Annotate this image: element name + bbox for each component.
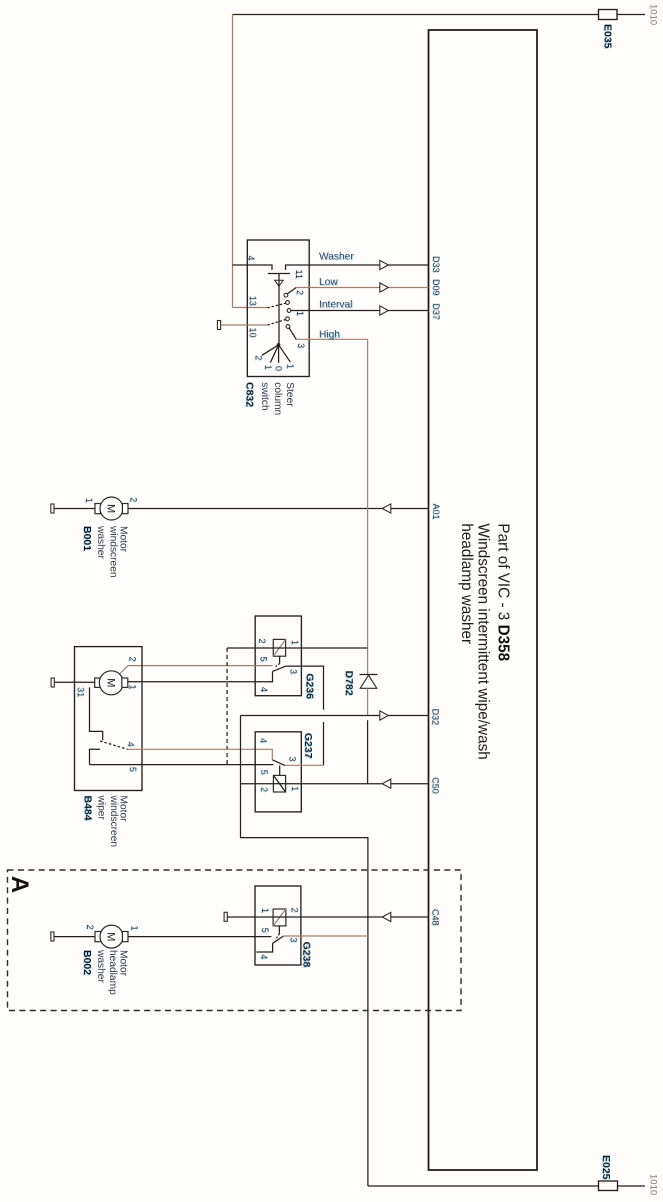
terminator B001 pin 1 xyxy=(51,504,54,513)
label Motor headlamp washer B002 xyxy=(81,949,129,995)
svg-text:B002: B002 xyxy=(81,950,93,975)
wire to pin 13 (brown) xyxy=(233,307,268,309)
position label 1b xyxy=(285,364,295,369)
svg-text:3: 3 xyxy=(288,669,298,674)
svg-text:5: 5 xyxy=(260,928,270,933)
wire G237 pin 3 (brown) xyxy=(286,764,324,766)
pin 1 G238 xyxy=(260,908,270,913)
wire B484 pin 5 to G237 contact 5 xyxy=(90,764,274,766)
wire G236 coil feed left xyxy=(227,647,273,649)
svg-text:4: 4 xyxy=(259,687,269,692)
svg-text:4: 4 xyxy=(258,738,268,743)
svg-text:2: 2 xyxy=(295,290,305,295)
svg-text:2: 2 xyxy=(257,639,267,644)
net label 1010 top xyxy=(647,4,658,25)
svg-text:C48: C48 xyxy=(430,909,440,926)
contact 3 circle xyxy=(286,325,290,329)
wire contact 1 to Interval output xyxy=(291,310,429,312)
pin 1 B002 xyxy=(130,926,140,931)
svg-text:M: M xyxy=(105,932,117,941)
label G237 xyxy=(302,733,314,759)
wire G238 coil pin 2 to C48 xyxy=(286,916,429,918)
wire E035 to edge xyxy=(617,14,645,16)
label Steer column switch xyxy=(259,382,295,415)
svg-text:A: A xyxy=(6,876,33,893)
svg-text:2: 2 xyxy=(85,925,95,930)
steering column switch C832 box xyxy=(247,240,309,377)
relay G238 box xyxy=(255,886,301,965)
wire stub C50 net vertical xyxy=(367,720,369,784)
washer bridge contact bar xyxy=(268,273,290,275)
position label 2 xyxy=(254,355,264,360)
svg-text:Steer: Steer xyxy=(284,382,295,407)
wire B484 pin 4 to G237 (brown) xyxy=(128,749,273,759)
svg-text:D09: D09 xyxy=(431,279,441,296)
wire terminator to motor B001 xyxy=(54,508,95,510)
wire terminator to B484 xyxy=(54,681,94,683)
contact 2 circle xyxy=(284,293,288,297)
pin 1 B484 xyxy=(128,685,138,690)
pin 2 G237 xyxy=(259,787,269,792)
wire diode to D32 net (brown) xyxy=(367,688,369,715)
wire B484 park switch common xyxy=(90,687,103,740)
wire G238 pin 3 to ground path (brown) xyxy=(284,935,368,937)
label D09 xyxy=(431,279,441,296)
motor B484 box xyxy=(75,647,143,791)
svg-text:2: 2 xyxy=(254,355,264,360)
motor B002 xyxy=(95,925,128,948)
svg-text:4: 4 xyxy=(246,256,256,261)
svg-text:1: 1 xyxy=(128,685,138,690)
label Motor windscreen washer B001 xyxy=(81,525,129,578)
wire D32 net to ground path xyxy=(241,716,368,1187)
pin 3 xyxy=(296,343,306,348)
label C50 xyxy=(430,777,440,794)
svg-text:13: 13 xyxy=(248,296,258,306)
park switch contact stub xyxy=(90,749,101,764)
pin 4 G237 xyxy=(258,738,268,743)
svg-text:1: 1 xyxy=(263,365,273,370)
wire terminator to motor B002 xyxy=(54,936,95,938)
pin 13 xyxy=(248,296,258,306)
pin 31 B484 xyxy=(76,687,86,697)
wire ground bottom (net 1010) xyxy=(368,1185,599,1187)
svg-text:M: M xyxy=(104,678,116,687)
svg-text:D33: D33 xyxy=(431,256,441,273)
pin 1 G237 xyxy=(290,786,300,791)
pin 5 G236 xyxy=(259,657,269,662)
control unit D358 box xyxy=(429,30,538,1170)
svg-text:31: 31 xyxy=(76,687,86,697)
arrow A01 xyxy=(382,504,391,513)
wire B001 to A01 xyxy=(128,508,429,510)
wire High net vertical (brown) xyxy=(367,339,369,674)
pin 4 G238 xyxy=(259,954,269,959)
arrow D32 xyxy=(380,711,389,720)
contact 13 circle xyxy=(286,301,290,305)
pin 4 xyxy=(246,256,256,261)
arrow C48 xyxy=(382,912,391,921)
svg-text:11: 11 xyxy=(294,270,304,279)
label A01 xyxy=(431,504,441,520)
label A xyxy=(6,876,33,893)
label Windscreen intermittent wipe/wash xyxy=(475,523,492,759)
svg-text:C832: C832 xyxy=(243,382,255,407)
svg-text:switch: switch xyxy=(259,382,270,410)
svg-text:1010: 1010 xyxy=(647,4,658,25)
wire G237 coil pin 1 to C50 xyxy=(286,783,429,785)
svg-text:windscreen: windscreen xyxy=(107,525,118,578)
relay G237 coil xyxy=(273,775,285,792)
svg-text:4: 4 xyxy=(126,742,136,747)
svg-text:2: 2 xyxy=(128,657,138,662)
contact 10 circle xyxy=(286,317,290,321)
svg-text:2: 2 xyxy=(129,497,139,502)
pin 1 B001 xyxy=(84,498,94,503)
svg-text:5: 5 xyxy=(259,770,269,775)
svg-text:windscreen: windscreen xyxy=(108,795,119,848)
svg-text:2: 2 xyxy=(259,787,269,792)
rotary position fan xyxy=(262,343,291,363)
arrow D37 xyxy=(380,306,389,315)
arrow D09 xyxy=(380,283,389,292)
svg-text:Interval: Interval xyxy=(319,300,352,311)
svg-text:C50: C50 xyxy=(430,777,440,794)
svg-text:Part of VIC - 3 D358: Part of VIC - 3 D358 xyxy=(495,523,512,661)
svg-text:Motor: Motor xyxy=(118,950,129,977)
svg-text:D37: D37 xyxy=(431,303,441,320)
pin 5 G237 xyxy=(259,770,269,775)
label E035 xyxy=(602,24,614,49)
relay G236 coil xyxy=(273,639,285,656)
svg-text:1: 1 xyxy=(260,908,270,913)
pin 1 xyxy=(295,311,305,316)
motor B484 xyxy=(95,671,128,695)
svg-text:G237: G237 xyxy=(302,733,314,759)
washer contact right stub to pin 11 xyxy=(286,265,429,270)
pin 3 G238 xyxy=(289,937,299,942)
label E025 xyxy=(600,1155,612,1180)
svg-text:B484: B484 xyxy=(82,796,94,821)
svg-text:3: 3 xyxy=(289,937,299,942)
wire B002 to G238 contact 5 xyxy=(128,936,271,938)
svg-text:A01: A01 xyxy=(431,504,441,520)
label Part of VIC - 3 D358 xyxy=(495,523,512,661)
terminator pin 10 xyxy=(217,321,220,330)
connector E025 xyxy=(599,1181,618,1191)
label D782 xyxy=(343,671,355,696)
relay G238 armature xyxy=(273,926,284,943)
wire D32 net horizontal xyxy=(241,715,429,717)
wire vertical feed to switch (brown) xyxy=(232,15,234,308)
wire ground feed top (net 1010) xyxy=(233,14,599,16)
wire terminator to G238 coil xyxy=(227,916,273,918)
svg-text:E035: E035 xyxy=(602,24,614,49)
svg-text:E025: E025 xyxy=(600,1155,612,1180)
terminator G238 coil feed xyxy=(224,912,227,921)
label G238 xyxy=(300,942,312,968)
svg-text:5: 5 xyxy=(259,657,269,662)
pin 5 B484 xyxy=(128,767,138,772)
park switch arm B484 xyxy=(100,741,128,749)
label Low xyxy=(319,277,338,288)
label D32 xyxy=(430,709,440,726)
pin 2 xyxy=(295,290,305,295)
switch wiper stem xyxy=(278,274,280,345)
svg-text:Washer: Washer xyxy=(319,252,354,263)
pin 2 B001 xyxy=(129,497,139,502)
moving contact from pin 10 xyxy=(268,320,286,326)
relay G236 box xyxy=(255,616,301,696)
wire G236 pin 4 to B484 pin 1 xyxy=(128,671,273,681)
svg-text:4: 4 xyxy=(259,954,269,959)
wire G236 pin 3 down to G237 pin 3 xyxy=(286,666,324,765)
svg-text:0: 0 xyxy=(274,366,284,371)
wire contact 2 to Low output (brown) xyxy=(287,288,428,294)
label D33 xyxy=(431,256,441,273)
motor B001 xyxy=(95,497,128,520)
pin 2 B484 xyxy=(128,657,138,662)
pin 10 xyxy=(248,328,258,338)
svg-text:wiper: wiper xyxy=(96,795,107,821)
pin 11 xyxy=(294,270,304,279)
connector E035 xyxy=(599,10,618,20)
relay G236 armature xyxy=(273,656,286,671)
label High xyxy=(319,330,340,341)
label D37 xyxy=(431,303,441,320)
wire terminator to pin 10 (brown) xyxy=(221,324,268,326)
wire E025 to edge xyxy=(618,1185,646,1187)
label C832 xyxy=(243,382,255,407)
svg-text:G236: G236 xyxy=(304,673,316,699)
svg-text:column: column xyxy=(272,382,283,415)
label Washer xyxy=(319,252,354,263)
svg-text:1: 1 xyxy=(295,311,305,316)
position label 1 xyxy=(263,365,273,370)
svg-text:1: 1 xyxy=(290,786,300,791)
terminator B484 pin 31 xyxy=(51,678,54,687)
svg-text:B001: B001 xyxy=(81,526,93,551)
net label 1010 bottom xyxy=(647,1174,658,1195)
wire G236 pin 5 from B484 pin 2 (brown) xyxy=(128,665,273,667)
diode D782 xyxy=(360,675,378,689)
svg-text:Low: Low xyxy=(319,277,338,288)
svg-text:headlamp washer: headlamp washer xyxy=(458,523,475,644)
wire G237 coil pin 2 to D32 net xyxy=(241,783,274,785)
terminator B002 pin 2 xyxy=(51,932,54,941)
wire B484 pin 2 stub (brown) xyxy=(120,666,128,674)
wire G236 coil pin 1 to High net xyxy=(286,647,368,649)
moving contact from pin 13 xyxy=(268,303,286,308)
wire dashed link G236 coil to pin5 net xyxy=(226,648,228,765)
svg-text:M: M xyxy=(105,504,117,513)
svg-text:3: 3 xyxy=(287,756,297,761)
svg-text:D782: D782 xyxy=(343,671,355,696)
svg-text:1: 1 xyxy=(285,364,295,369)
pin 2 G238 xyxy=(290,907,300,912)
svg-text:1: 1 xyxy=(130,926,140,931)
pin 2 G236 xyxy=(257,639,267,644)
relay G237 armature xyxy=(272,760,286,776)
svg-text:1010: 1010 xyxy=(647,1174,658,1195)
svg-text:D32: D32 xyxy=(430,709,440,726)
relay G238 coil xyxy=(273,909,286,926)
svg-text:Windscreen intermittent wipe/w: Windscreen intermittent wipe/wash xyxy=(475,523,492,759)
svg-text:washer: washer xyxy=(95,525,106,559)
label headlamp washer xyxy=(458,523,475,644)
position label 0 xyxy=(274,366,284,371)
svg-text:High: High xyxy=(319,330,340,341)
svg-text:10: 10 xyxy=(248,328,258,338)
svg-text:1: 1 xyxy=(84,498,94,503)
pin 4 B484 xyxy=(126,742,136,747)
arrow D33 xyxy=(380,260,389,269)
pin 3 G237 xyxy=(287,756,297,761)
relay G237 box xyxy=(255,732,301,812)
pin 5 G238 xyxy=(260,928,270,933)
svg-text:washer: washer xyxy=(95,949,106,983)
wire G238 pin 4 stub xyxy=(256,943,272,952)
label C48 xyxy=(430,909,440,926)
dashed box A xyxy=(8,870,462,1011)
svg-text:3: 3 xyxy=(296,343,306,348)
svg-text:5: 5 xyxy=(128,767,138,772)
arrow C50 xyxy=(382,779,391,788)
pin 2 B002 xyxy=(85,925,95,930)
svg-text:2: 2 xyxy=(290,907,300,912)
svg-text:1: 1 xyxy=(290,640,300,645)
svg-text:G238: G238 xyxy=(300,942,312,968)
pin 3 G236 xyxy=(288,669,298,674)
svg-text:headlamp: headlamp xyxy=(107,950,118,995)
label G236 xyxy=(304,673,316,699)
wire contact 3 to High output (brown) xyxy=(289,328,367,339)
contact 1 circle xyxy=(287,309,291,313)
label Motor windscreen wiper B484 xyxy=(82,795,129,848)
pin 4 G236 xyxy=(259,687,269,692)
wiper detent arrow xyxy=(275,280,284,286)
pin 1 G236 xyxy=(290,640,300,645)
wire pin 4 to washer contact xyxy=(233,265,273,270)
label Interval xyxy=(319,300,352,311)
